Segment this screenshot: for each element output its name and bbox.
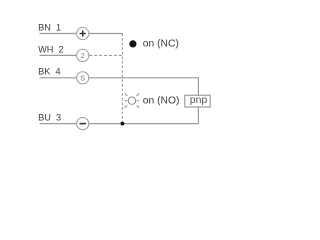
svg-text:on (NO): on (NO) xyxy=(143,95,180,106)
svg-text:on (NC): on (NC) xyxy=(143,38,179,49)
wire BU 3 horizontal (right segment to right edge) xyxy=(89,123,199,125)
svg-text:S: S xyxy=(80,73,85,82)
wire WH dashed segment to vertical node line xyxy=(89,54,123,56)
wire WH 2 horizontal (left segment) xyxy=(40,54,77,56)
svg-text:pnp: pnp xyxy=(190,94,208,106)
lamp indicator on (NO) xyxy=(125,94,140,108)
junction node on BU wire xyxy=(121,122,125,126)
wire pnp box down to BU wire xyxy=(197,107,199,124)
svg-text:2: 2 xyxy=(81,51,85,60)
wire BN 1 horizontal (right segment to corner) xyxy=(89,33,123,35)
svg-text:BU 3: BU 3 xyxy=(38,113,61,123)
wire BK 4 horizontal (right segment to right edge) xyxy=(89,77,199,79)
terminal − (BU pin 3) xyxy=(77,118,89,130)
wire BU 3 horizontal (left segment) xyxy=(40,123,77,125)
wire BN 1 horizontal (left segment) xyxy=(40,33,77,35)
wire BK right vertical down to pnp box xyxy=(197,78,199,96)
svg-text:BN 1: BN 1 xyxy=(38,22,61,32)
svg-text:WH 2: WH 2 xyxy=(38,44,64,54)
terminal 2 (WH pin 2) xyxy=(77,49,89,61)
terminal S (BK pin 4) xyxy=(77,72,89,84)
wire dashed vertical from BN corner down to BU junction xyxy=(121,34,123,124)
output type box pnp xyxy=(185,95,210,107)
LED indicator dot on (NC) xyxy=(129,40,136,47)
svg-text:BK 4: BK 4 xyxy=(38,67,60,77)
terminal + (BN pin 1) xyxy=(77,27,89,39)
wire BK 4 horizontal (left segment) xyxy=(40,77,77,79)
